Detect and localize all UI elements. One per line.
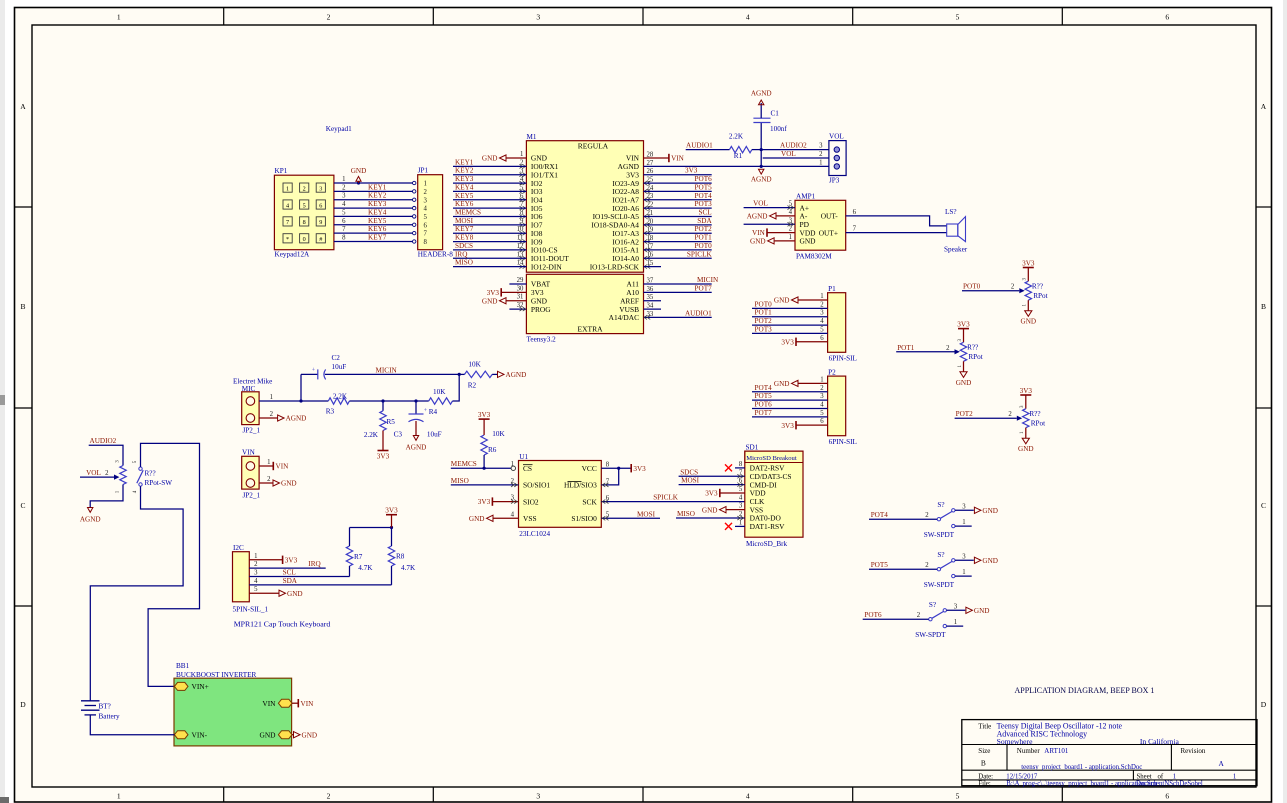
wire (453, 249, 526, 251)
resistor R2 10K (459, 361, 497, 390)
svg-text:OUT+: OUT+ (819, 228, 838, 237)
svg-text:KEY1: KEY1 (368, 183, 387, 191)
svg-text:Somewhere: Somewhere (997, 737, 1033, 746)
wire stub pin 29 (509, 283, 526, 285)
wire (869, 518, 937, 520)
wire (453, 374, 460, 401)
svg-text:VOL: VOL (829, 133, 844, 141)
svg-text:0: 0 (303, 236, 306, 243)
svg-text:S?: S? (937, 501, 944, 509)
svg-text:4: 4 (342, 201, 346, 208)
wire (453, 174, 526, 176)
wire (349, 400, 383, 402)
wire SDCS (679, 475, 745, 477)
svg-text:8: 8 (342, 234, 346, 241)
svg-text:3V3: 3V3 (377, 453, 390, 461)
wire MISO (451, 484, 519, 486)
wire (453, 266, 526, 268)
svg-text:MEMCS: MEMCS (451, 460, 477, 468)
wire (752, 399, 828, 401)
svg-text:5PIN-SIL_1: 5PIN-SIL_1 (233, 606, 269, 614)
svg-text:2.2K: 2.2K (333, 393, 348, 401)
wire (752, 324, 828, 326)
svg-text:D: D (1261, 700, 1267, 709)
node (483, 467, 486, 470)
wire (863, 618, 929, 620)
power port GND (keypad common) (351, 167, 367, 184)
svg-text:CS: CS (523, 464, 532, 473)
power port 3V3 (M1 pin 30) (500, 288, 502, 296)
wire OUT+ (846, 232, 947, 234)
wire (453, 207, 526, 209)
svg-text:A: A (1261, 102, 1267, 111)
svg-text:P2: P2 (828, 368, 836, 376)
svg-text:RPot: RPot (1031, 419, 1045, 427)
wire (760, 150, 762, 167)
svg-text:10K: 10K (492, 430, 505, 438)
wire (644, 207, 712, 209)
svg-text:IO13-LRD-SCK: IO13-LRD-SCK (590, 262, 640, 271)
svg-text:GND: GND (281, 480, 297, 488)
wire (644, 232, 712, 234)
power port GND (JP2_1 pin 2) (273, 480, 280, 486)
svg-text:1: 1 (117, 13, 121, 22)
wire VOL to AMP1 (744, 207, 795, 209)
svg-text:APPLICATION DIAGRAM, BEEP BOX: APPLICATION DIAGRAM, BEEP BOX 1 (1015, 686, 1155, 695)
svg-text:29: 29 (517, 277, 524, 284)
svg-text:2: 2 (254, 561, 258, 568)
svg-text:7: 7 (424, 231, 428, 238)
svg-text:3V3: 3V3 (781, 338, 794, 346)
svg-text:1: 1 (954, 619, 957, 626)
wire (644, 182, 712, 184)
svg-text:5: 5 (956, 792, 960, 801)
svg-text:100nf: 100nf (770, 125, 787, 133)
svg-text:Revision: Revision (1181, 747, 1206, 755)
svg-text:C: C (20, 501, 25, 510)
svg-text:1: 1 (962, 569, 965, 576)
svg-text:10uF: 10uF (332, 363, 347, 371)
wire (259, 482, 273, 484)
svg-text:1: 1 (270, 394, 273, 401)
power port 3V3 (below R5) (378, 450, 389, 452)
svg-text:GND: GND (1018, 445, 1034, 453)
wire SCL (249, 576, 349, 578)
svg-text:IRQ: IRQ (455, 250, 468, 258)
svg-text:3V3: 3V3 (478, 498, 491, 506)
power port 3V3 (U1 VCC) (630, 464, 632, 472)
svg-text:VIN: VIN (242, 449, 256, 457)
svg-text:35: 35 (647, 294, 654, 301)
svg-text:AUDIO2: AUDIO2 (90, 437, 117, 445)
svg-text:GND: GND (956, 379, 972, 387)
svg-text:3V3: 3V3 (781, 422, 794, 430)
svg-text:POT6: POT6 (695, 175, 713, 183)
svg-text:R6: R6 (488, 446, 497, 454)
svg-text:POT2: POT2 (695, 225, 713, 233)
power port GND (I2C pin 5) (279, 590, 286, 596)
svg-text:GND: GND (351, 167, 367, 175)
svg-text:GND: GND (982, 507, 998, 515)
power port GND (966, 607, 973, 613)
svg-text:VOL: VOL (781, 150, 796, 158)
power port GND (974, 557, 981, 563)
svg-text:File:: File: (978, 780, 991, 787)
svg-text:GND: GND (469, 515, 485, 523)
svg-text:Teensy3.2: Teensy3.2 (527, 336, 557, 344)
svg-text:1: 1 (962, 519, 965, 526)
svg-text:6PIN-SIL: 6PIN-SIL (829, 438, 857, 446)
wire stub pin 35 (644, 300, 662, 302)
svg-text:AUDIO1: AUDIO1 (685, 309, 712, 317)
svg-text:AGND: AGND (747, 213, 768, 221)
svg-text:AGND: AGND (406, 444, 427, 452)
svg-text:POT5: POT5 (755, 392, 773, 400)
wire (391, 515, 393, 528)
svg-text:5: 5 (254, 586, 258, 593)
svg-text:VIN: VIN (276, 463, 290, 471)
wire SPICLK (601, 501, 745, 503)
svg-text:JP3: JP3 (829, 177, 840, 185)
connector JP3 VOL (819, 133, 846, 185)
svg-text:C3: C3 (394, 431, 403, 439)
power port 3V3 (SD1 VDD) (719, 489, 721, 497)
wire (796, 424, 828, 426)
resistor R8 4.7K (388, 528, 416, 585)
svg-text:R7: R7 (354, 553, 363, 561)
svg-text:2: 2 (424, 189, 428, 196)
svg-text:3V3: 3V3 (478, 411, 491, 419)
power port GND (M1 pin 31) (482, 297, 526, 305)
wire (334, 232, 413, 234)
svg-text:2: 2 (267, 476, 271, 483)
node MICIN junction (458, 373, 461, 376)
connector JP2_1 MIC (Electret Mike) (233, 378, 272, 435)
svg-text:8: 8 (739, 461, 743, 468)
resistor R7 4.7K (346, 528, 373, 577)
wire (644, 241, 712, 243)
svg-text:GND: GND (482, 297, 498, 305)
wire (334, 190, 413, 192)
svg-text:GND: GND (287, 590, 303, 598)
svg-text:VSS: VSS (523, 514, 537, 523)
svg-text:KEY7: KEY7 (455, 225, 474, 233)
switch S? SW-SPDT (POT4) (924, 501, 955, 539)
svg-text:SDCS: SDCS (680, 468, 698, 476)
resistor R6 10K (481, 419, 506, 468)
wire (644, 316, 712, 318)
wire (292, 702, 298, 704)
svg-text:A: A (1219, 759, 1225, 768)
wire VOL wiper (80, 469, 119, 480)
svg-text:KEY6: KEY6 (455, 200, 474, 208)
wire (259, 465, 273, 467)
wire (601, 468, 618, 485)
svg-text:POT4: POT4 (755, 384, 773, 392)
wire MOSI (679, 484, 745, 486)
svg-text:MISO: MISO (451, 477, 469, 485)
svg-text:R3: R3 (326, 408, 335, 416)
svg-text:POT5: POT5 (871, 561, 889, 569)
svg-text:SDCS: SDCS (455, 242, 473, 250)
svg-text:3V3: 3V3 (487, 289, 500, 297)
svg-text:POT2: POT2 (956, 410, 974, 418)
svg-text:Battery: Battery (99, 712, 121, 720)
svg-text:RPot: RPot (968, 353, 982, 361)
svg-text:4: 4 (820, 318, 824, 325)
wire (301, 373, 318, 375)
power port AGND (MIC pin 2) (278, 415, 285, 421)
power port 3V3 (above R6) (479, 418, 490, 420)
svg-text:Keypad1: Keypad1 (326, 125, 352, 133)
wire (90, 715, 174, 735)
svg-text:SO/SIO1: SO/SIO1 (523, 481, 550, 490)
svg-text:3V3: 3V3 (685, 167, 698, 175)
potentiometer R?? RPot (POT1) (956, 320, 983, 386)
svg-text:D: D (20, 700, 26, 709)
svg-text:R??: R?? (967, 344, 978, 352)
svg-text:4: 4 (739, 494, 743, 501)
svg-text:1: 1 (739, 519, 742, 526)
svg-text:3V3: 3V3 (705, 490, 718, 498)
svg-text:RPot: RPot (1033, 292, 1047, 300)
power port GND (P1 pin 1) (774, 297, 828, 305)
svg-text:6: 6 (1165, 13, 1169, 22)
wire (292, 734, 294, 736)
svg-text:MPR121 Cap Touch Keyboard: MPR121 Cap Touch Keyboard (234, 620, 331, 629)
wire (752, 307, 828, 309)
speaker LS? (944, 208, 968, 254)
svg-text:5: 5 (303, 202, 306, 209)
svg-text:VOL: VOL (753, 200, 768, 208)
svg-text:HLD/SIO3: HLD/SIO3 (564, 481, 597, 490)
battery BT? (81, 701, 120, 721)
wire (955, 509, 974, 511)
svg-text:R4: R4 (429, 408, 438, 416)
svg-text:23LC1024: 23LC1024 (519, 530, 550, 538)
svg-text:SD1: SD1 (746, 444, 759, 452)
svg-text:MICIN: MICIN (697, 276, 719, 284)
wire (453, 215, 526, 217)
wire (644, 257, 712, 259)
svg-text:5: 5 (820, 326, 824, 333)
wire stub pin 34 (644, 308, 662, 310)
svg-text:S1/SIO0: S1/SIO0 (571, 514, 597, 523)
svg-text:*: * (286, 236, 289, 243)
svg-text:SW-SPDT: SW-SPDT (924, 581, 955, 589)
wire stub (947, 625, 964, 627)
capacitor C2 10uF (312, 354, 346, 379)
svg-text:DAT1-RSV: DAT1-RSV (750, 522, 786, 531)
svg-text:8: 8 (424, 239, 428, 246)
mcu M1 Teensy3.2 (517, 133, 654, 344)
wire (453, 190, 526, 192)
wire stub pin 32 (509, 308, 526, 310)
svg-text:2: 2 (270, 411, 274, 418)
connector JP1 HEADER-8 (413, 167, 454, 259)
svg-text:A: A (20, 102, 26, 111)
svg-text:GND: GND (750, 238, 766, 246)
svg-text:R1: R1 (734, 152, 743, 160)
svg-text:VIN: VIN (262, 699, 276, 708)
wire (767, 232, 795, 234)
power port 3V3 (above R8) (386, 514, 397, 516)
wire (334, 182, 413, 184)
svg-text:1: 1 (254, 553, 257, 560)
svg-text:4: 4 (746, 792, 750, 801)
wire (259, 417, 278, 419)
svg-text:7: 7 (286, 219, 289, 226)
wire (644, 283, 712, 285)
svg-text:I2C: I2C (233, 544, 244, 552)
svg-text:5: 5 (820, 410, 824, 417)
svg-text:B: B (1261, 302, 1266, 311)
power port AGND (below C3) (413, 436, 418, 441)
wire MOSI (601, 517, 660, 519)
connector P2 6PIN-SIL (820, 368, 857, 446)
svg-text:MEMCS: MEMCS (455, 208, 481, 216)
svg-text:6PIN-SIL: 6PIN-SIL (829, 355, 857, 363)
wire (644, 157, 669, 159)
svg-text:AMP1: AMP1 (796, 193, 816, 201)
power port VIN (BB1) (297, 699, 299, 707)
svg-text:POT1: POT1 (695, 234, 713, 242)
wire (334, 215, 413, 217)
svg-text:AUDIO2: AUDIO2 (780, 142, 807, 150)
wire (334, 199, 413, 201)
wire (249, 559, 282, 561)
wire stub pin 15 (644, 266, 662, 268)
svg-text:JP2_1: JP2_1 (243, 492, 261, 500)
svg-text:REGULA: REGULA (578, 142, 609, 151)
svg-text:5: 5 (739, 486, 743, 493)
power port VIN (AMP1 VDD) (766, 228, 768, 236)
svg-text:2: 2 (1011, 284, 1015, 291)
node mic (299, 399, 302, 402)
svg-text:1: 1 (117, 792, 121, 801)
wire VCC to 3V3 (601, 467, 630, 469)
wire POT2 wiper (955, 410, 1023, 421)
svg-text:POT7: POT7 (695, 284, 713, 292)
svg-text:37: 37 (647, 277, 654, 284)
switch S? SW-SPDT (POT5) (924, 551, 955, 589)
svg-text:AGND: AGND (80, 516, 101, 524)
svg-text:2.2K: 2.2K (729, 133, 744, 141)
wire (300, 374, 302, 401)
svg-text:POT0: POT0 (755, 300, 773, 308)
switch S? SW-SPDT (POT6) (915, 601, 946, 639)
no-connect X (SD1 pin 8) (725, 464, 745, 471)
wire IRQ (249, 567, 325, 569)
svg-text:KEY5: KEY5 (455, 192, 474, 200)
svg-text:1: 1 (819, 159, 822, 166)
svg-text:1: 1 (789, 234, 792, 241)
svg-text:4: 4 (746, 13, 750, 22)
svg-text:KEY5: KEY5 (368, 217, 387, 225)
svg-text:2: 2 (303, 185, 306, 192)
svg-text:3: 3 (820, 310, 824, 317)
wire POT1 wiper (896, 344, 960, 355)
svg-text:3: 3 (962, 553, 966, 560)
svg-text:34: 34 (647, 302, 654, 309)
wire switch pin4 to battery (90, 486, 183, 701)
power port AGND (volume pot) (88, 508, 93, 513)
capacitor C3 10uF (394, 401, 442, 439)
svg-text:4: 4 (254, 578, 258, 585)
power port VIN (JP2_1 pin 1) (272, 462, 274, 470)
svg-text:9: 9 (319, 219, 322, 226)
no-connect X (SD1 pin 1) (725, 523, 745, 530)
svg-text:Number: Number (1017, 747, 1041, 755)
svg-text:3V3: 3V3 (1020, 387, 1033, 395)
svg-text:2: 2 (820, 385, 824, 392)
svg-text:10K: 10K (468, 361, 481, 369)
potentiometer R?? RPot (POT2) (1018, 387, 1045, 453)
wire (955, 559, 974, 561)
svg-text:Speaker: Speaker (944, 246, 968, 254)
svg-text:8: 8 (303, 219, 306, 226)
svg-text:3V3: 3V3 (1022, 259, 1035, 267)
svg-text:AGND: AGND (751, 90, 772, 98)
node (381, 399, 384, 402)
wire (383, 400, 416, 402)
svg-text:S?: S? (937, 551, 944, 559)
svg-text:4: 4 (286, 202, 289, 209)
svg-text:GND: GND (302, 731, 318, 739)
svg-text:3: 3 (954, 603, 958, 610)
potentiometer R?? RPot-SW (volume) (116, 460, 173, 494)
potentiometer R?? RPot (POT0) (1021, 259, 1048, 325)
wire (416, 400, 429, 402)
module BB1 BUCKBOOST INVERTER (174, 662, 292, 746)
power port 3V3 (P2 pin 6) (795, 421, 797, 429)
wire (453, 199, 526, 201)
svg-text:C: C (1261, 501, 1266, 510)
svg-text:AGND: AGND (751, 176, 772, 184)
svg-text:3: 3 (536, 13, 540, 22)
svg-text:POT7: POT7 (755, 409, 773, 417)
wire (644, 224, 712, 226)
svg-text:PAM8302M: PAM8302M (796, 253, 832, 261)
power port GND (SD1 VSS) (702, 506, 745, 514)
wire (752, 316, 828, 318)
resistor R5 2.2K (364, 401, 395, 451)
svg-text:KEY2: KEY2 (368, 192, 387, 200)
amplifier AMP1 PAM8302M (789, 193, 846, 261)
svg-text:POT5: POT5 (695, 183, 713, 191)
title block (962, 720, 1257, 788)
wire (453, 182, 526, 184)
svg-text:DocumentNSchDeSobel: DocumentNSchDeSobel (1136, 780, 1203, 787)
svg-text:GND: GND (1021, 318, 1037, 326)
svg-text:RPot-SW: RPot-SW (145, 479, 173, 487)
wire (644, 174, 712, 176)
svg-text:HEADER-8: HEADER-8 (418, 251, 454, 259)
wire (453, 165, 526, 167)
svg-text:VIN: VIN (671, 155, 685, 163)
svg-text:POT6: POT6 (755, 400, 773, 408)
svg-text:1: 1 (520, 151, 523, 158)
svg-text:3: 3 (962, 503, 966, 510)
svg-text:Keypad12A: Keypad12A (275, 251, 311, 259)
svg-text:IRQ: IRQ (308, 560, 321, 568)
svg-text:MicroSD_Brk: MicroSD_Brk (746, 540, 788, 548)
svg-text:MISO: MISO (455, 259, 473, 267)
svg-text:SCL: SCL (283, 569, 296, 577)
svg-text:2: 2 (327, 792, 331, 801)
wire SDA (249, 584, 391, 586)
wire MISO (676, 517, 745, 519)
